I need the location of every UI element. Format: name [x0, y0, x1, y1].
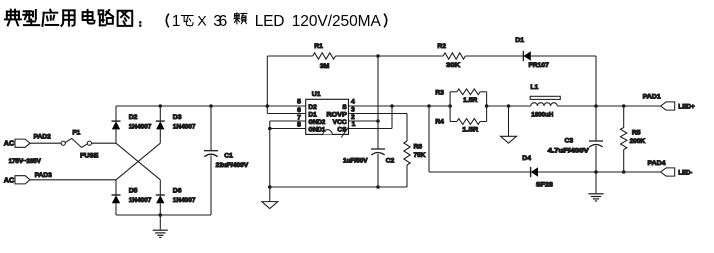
- diode D5 1N4007: [112, 195, 121, 203]
- svg-text:D2: D2: [308, 104, 317, 111]
- svg-text:2: 2: [351, 114, 355, 121]
- resistor R3 1.5R (top branch): [450, 89, 487, 106]
- fuse F1: [61, 138, 91, 147]
- junction VCC on C2 rail: [376, 119, 380, 123]
- junction VCC rail top: [376, 54, 380, 58]
- wire R6 bottom lead: [406, 165, 408, 187]
- wire fuse to bridge (D2 anode): [92, 142, 117, 144]
- svg-text:D4: D4: [522, 155, 531, 162]
- junction R5 top: [622, 104, 626, 108]
- wire L1 to PAD1 (LED+): [557, 105, 661, 107]
- junction ground arrow tap: [507, 104, 511, 108]
- svg-text:6: 6: [297, 107, 301, 114]
- junction CS tap on S line: [390, 104, 394, 108]
- junction D3 cathode on B+ rail: [159, 104, 163, 108]
- wire PAD2 to fuse: [30, 142, 61, 144]
- wire D6 cathode stub: [159, 180, 161, 195]
- svg-text:4: 4: [351, 99, 355, 106]
- svg-text:D1: D1: [308, 111, 317, 118]
- svg-text:1N4007: 1N4007: [129, 197, 152, 204]
- junction C2 on ground rail: [376, 185, 380, 189]
- wire CS vertical tap: [391, 106, 393, 129]
- wire to D4 cathode: [429, 171, 531, 173]
- ground (output): [588, 194, 603, 201]
- junction C1 top on B+ rail: [209, 104, 213, 108]
- junction R3/R4 left node: [448, 104, 452, 108]
- svg-text:1N4007: 1N4007: [173, 197, 196, 204]
- svg-text:PAD3: PAD3: [35, 172, 53, 179]
- wire R5 bottom lead: [623, 150, 625, 173]
- wire bridge bottom rail (B-): [116, 214, 211, 216]
- U1 bottom notch: [323, 130, 332, 135]
- pad PAD4 symbol: [661, 168, 675, 176]
- junction R1 branch on B+ rail: [266, 104, 270, 108]
- wire D6 anode stub: [159, 203, 161, 215]
- wire C1 bottom lead: [210, 155, 212, 215]
- svg-text:D3: D3: [173, 114, 182, 121]
- svg-text:FUSE: FUSE: [80, 153, 99, 160]
- svg-text:175V~265V: 175V~265V: [9, 158, 42, 165]
- svg-text:PAD4: PAD4: [648, 160, 666, 167]
- wire D2 cathode stub: [115, 106, 117, 121]
- wire PAD3 to bridge (D5 cathode): [30, 179, 116, 181]
- svg-text:1: 1: [352, 121, 356, 128]
- junction R3/R4 right node: [485, 104, 489, 108]
- wire IC ground rail: [270, 186, 407, 188]
- svg-text:3: 3: [351, 107, 355, 114]
- pad PAD2 symbol: [15, 139, 30, 147]
- svg-text:LED: LED: [255, 13, 285, 30]
- wire ground branch vertical: [269, 121, 271, 187]
- svg-text:1.5R: 1.5R: [462, 126, 478, 133]
- svg-text:ROVP: ROVP: [327, 111, 348, 118]
- svg-text:4.7uF/400V: 4.7uF/400V: [548, 147, 590, 154]
- svg-text:D2: D2: [129, 114, 138, 121]
- wire D1 to output node corner: [531, 55, 596, 57]
- svg-text:S: S: [342, 104, 347, 111]
- svg-text:22uF/400V: 22uF/400V: [216, 162, 249, 169]
- wire pin6 (D1) to B+ branch: [267, 113, 305, 115]
- diode D1 FR107: [523, 51, 530, 61]
- svg-text:D5: D5: [129, 188, 138, 195]
- wire to bridge ground: [159, 215, 161, 230]
- wire D2 anode stub: [115, 129, 117, 143]
- junction D4 branch on S line: [427, 104, 431, 108]
- svg-text:1800uH: 1800uH: [531, 112, 553, 119]
- wire C1 top lead: [210, 106, 212, 151]
- junction ground rail left: [268, 185, 272, 189]
- junction C3 bottom on LED- rail: [594, 170, 598, 174]
- wire R5 top lead: [623, 106, 625, 128]
- svg-text:C3: C3: [565, 138, 574, 145]
- wire C3 bottom lead: [595, 146, 597, 172]
- wire C2 bottom lead: [377, 154, 379, 187]
- svg-text:R1: R1: [314, 43, 323, 50]
- title 典型应用电路图：（1瓦 X 36颗 LED 120V/250MA）: [5, 10, 387, 30]
- svg-text:CS: CS: [337, 127, 347, 134]
- svg-text:SF28: SF28: [536, 181, 553, 188]
- capacitor C3 4.7uF/400V: [589, 141, 603, 147]
- svg-text:L1: L1: [530, 84, 538, 91]
- svg-text:7: 7: [297, 114, 301, 121]
- svg-text:5: 5: [297, 99, 301, 106]
- diode D4 SF28: [531, 167, 538, 177]
- svg-text:D6: D6: [173, 188, 182, 195]
- wire diagonal D3 anode to D5 cathode: [116, 143, 160, 180]
- svg-text:8: 8: [297, 122, 301, 129]
- resistor R5 200K: [621, 128, 627, 150]
- svg-text:D1: D1: [515, 37, 524, 44]
- junction R5 bottom on LED- rail: [622, 170, 626, 174]
- diode D2 1N4007: [112, 121, 121, 129]
- wire vertical D1 to C3/output: [595, 56, 597, 141]
- svg-text:VCC: VCC: [333, 119, 347, 126]
- wire pin1 (CS): [349, 128, 393, 130]
- capacitor C1 22uF/400V: [204, 151, 218, 157]
- svg-text:R2: R2: [437, 43, 446, 50]
- svg-text:LED-: LED-: [678, 170, 692, 177]
- svg-text:X: X: [197, 14, 207, 30]
- diode D6 1N4007: [156, 195, 165, 203]
- svg-text:C1: C1: [224, 152, 233, 159]
- svg-text:AC: AC: [4, 175, 14, 184]
- wire VCC vertical rail: [377, 56, 379, 149]
- inductor L1 1800uH: [530, 96, 560, 106]
- svg-text:120V/250MA: 120V/250MA: [292, 13, 382, 30]
- junction pin8 on ground branch: [268, 127, 272, 131]
- svg-text:R4: R4: [435, 118, 444, 125]
- resistor R4 1.5R (bottom branch): [450, 106, 487, 124]
- wire to open-triangle ground: [269, 187, 271, 202]
- wire LED- rail: [538, 171, 661, 173]
- svg-text:U1: U1: [312, 91, 321, 98]
- op-amp U1 (LED driver IC) body: [306, 99, 349, 134]
- svg-text:1.5R: 1.5R: [463, 97, 478, 104]
- wire B+ rail (bridge top to IC pin5): [116, 105, 306, 107]
- svg-text:GND2: GND2: [308, 119, 325, 126]
- svg-text:AC: AC: [4, 138, 14, 147]
- wire R2 to D1: [465, 55, 523, 57]
- svg-text:FR107: FR107: [529, 62, 550, 69]
- ground (open triangle, sense node): [501, 136, 517, 143]
- resistor R6 75K: [404, 141, 410, 165]
- wire D3 cathode stub: [159, 106, 161, 121]
- svg-text:3M: 3M: [320, 63, 330, 70]
- svg-text:PAD1: PAD1: [643, 94, 661, 101]
- resistor R1 3M: [313, 53, 336, 59]
- ground (bridge B-): [153, 230, 168, 237]
- diode D3 1N4007: [156, 121, 165, 129]
- svg-text:F1: F1: [72, 130, 80, 137]
- svg-text:LED+: LED+: [678, 104, 695, 111]
- svg-text:1N4007: 1N4007: [173, 123, 196, 130]
- wire R6 top lead: [406, 114, 408, 142]
- svg-text:C2: C2: [386, 158, 395, 165]
- U1 pin1 corner slash: [341, 127, 349, 138]
- svg-text:30K: 30K: [446, 62, 460, 69]
- wire pin2 (VCC): [349, 120, 379, 122]
- capacitor C2 1uF/50V: [371, 149, 385, 155]
- wire D5 anode stub: [115, 203, 117, 215]
- svg-text:R6: R6: [414, 144, 423, 151]
- ground (open triangle, IC): [262, 202, 278, 209]
- svg-text:GND1: GND1: [308, 126, 325, 133]
- wire R1 branch vertical (B+ to pin6): [266, 56, 268, 114]
- pad PAD1 symbol: [661, 102, 675, 110]
- junction output node with D1/C3 vertical: [594, 104, 598, 108]
- wire S node down to D4 rail: [428, 106, 430, 172]
- svg-text:1: 1: [172, 13, 181, 30]
- wire D3 anode stub: [159, 129, 161, 143]
- wire D5 cathode stub: [115, 180, 117, 195]
- wire R3/R4 to L1: [487, 105, 531, 107]
- svg-text:200K: 200K: [630, 138, 646, 145]
- svg-text:1N4007: 1N4007: [129, 123, 152, 130]
- wire top rail middle segment: [336, 55, 444, 57]
- svg-text:1uF/50V: 1uF/50V: [343, 158, 368, 165]
- svg-text:PAD2: PAD2: [34, 134, 52, 141]
- wire top rail left segment: [267, 55, 312, 57]
- svg-text:75K: 75K: [414, 152, 426, 159]
- svg-text:R3: R3: [435, 90, 444, 97]
- wire to open-triangle ground (sense): [508, 106, 510, 136]
- wire pin8 (GND1): [270, 128, 306, 130]
- wire to output ground: [595, 172, 597, 193]
- wire pin4 (S) to R3/R4 left node: [349, 105, 451, 107]
- svg-text:R5: R5: [632, 129, 641, 136]
- svg-text:36: 36: [213, 13, 227, 30]
- wire pin7 (GND2): [270, 120, 306, 122]
- junction bridge ground tap: [159, 213, 163, 217]
- wire diagonal D2 anode to D6 cathode: [116, 143, 160, 180]
- resistor R2 30K: [443, 53, 465, 59]
- pad PAD3 symbol: [15, 176, 30, 184]
- wire pin3 (ROVP) to R6: [349, 113, 408, 115]
